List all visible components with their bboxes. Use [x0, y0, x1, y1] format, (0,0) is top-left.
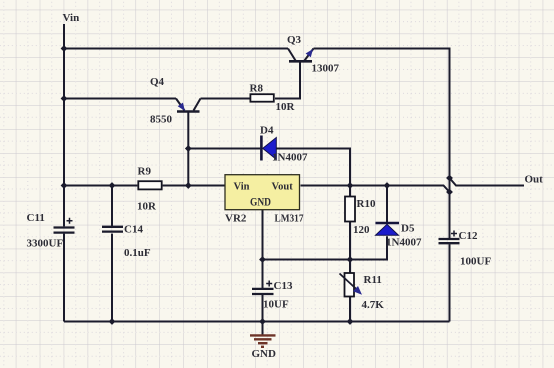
svg-text:Vin: Vin	[63, 12, 80, 24]
svg-text:1N4007: 1N4007	[272, 152, 308, 164]
svg-text:LM317: LM317	[275, 213, 304, 225]
svg-text:8550: 8550	[150, 114, 173, 126]
wire R9 to LM317 Vin pin	[163, 185, 225, 187]
svg-text:D5: D5	[401, 223, 415, 235]
svg-text:VR2: VR2	[225, 213, 247, 225]
svg-text:R10: R10	[357, 198, 376, 210]
regulator VR2 LM317	[225, 175, 304, 225]
wire R11 bottom lead	[349, 297, 351, 322]
svg-text:Vout: Vout	[272, 182, 294, 193]
junction at C14 / bottom rail	[109, 318, 116, 325]
ground symbol GND	[250, 322, 276, 361]
wire Q4 base lead down	[187, 112, 189, 186]
svg-text:C12: C12	[459, 230, 478, 242]
svg-text:10R: 10R	[276, 101, 296, 113]
junction upper jog	[446, 175, 453, 182]
resistor R10 120	[345, 197, 376, 237]
svg-text:GND: GND	[252, 348, 277, 360]
junction at D5 top	[384, 182, 391, 189]
wire ADJ row with D5 bottom lead	[263, 236, 388, 259]
svg-text:Vin: Vin	[234, 182, 250, 193]
junction at C13 / bottom rail	[259, 318, 266, 325]
wire Vout rail with jog diagonal	[301, 186, 450, 193]
svg-text:R11: R11	[364, 274, 382, 286]
wire jog to Out	[450, 178, 525, 186]
wire Q4 collector to R8	[201, 98, 250, 100]
junction at D4 corner / R10 top	[347, 182, 354, 189]
capacitor C12 100UF	[439, 230, 492, 268]
svg-text:GND: GND	[250, 197, 271, 209]
wire C13 bottom to rail	[262, 295, 264, 322]
svg-text:C13: C13	[274, 280, 293, 292]
svg-text:R9: R9	[138, 166, 152, 178]
wire top rail right (Q3 emitter to right corner, down)	[314, 49, 450, 179]
wire R10 top lead	[349, 186, 351, 197]
svg-text:13007: 13007	[312, 63, 340, 75]
wire D4 right segment with corner down	[276, 149, 350, 186]
capacitor C11 3300UF	[27, 212, 75, 250]
svg-text:Q4: Q4	[150, 76, 165, 88]
junction at C14 top	[109, 182, 116, 189]
wire right vertical down to C12	[449, 192, 451, 238]
transistor Q3 13007	[287, 34, 340, 75]
wire Vin stem lower to bottom rail corner	[63, 234, 65, 322]
wire right vertical jog segment	[449, 178, 451, 192]
wire R8 to Q3 base corner	[275, 61, 300, 98]
transistor Q4 8550	[150, 76, 201, 126]
svg-text:0.1uF: 0.1uF	[124, 247, 151, 259]
wire C14 bottom lead	[111, 234, 113, 322]
junction lower jog	[446, 189, 453, 196]
svg-text:100UF: 100UF	[460, 256, 491, 268]
junction at R10 bottom / R11 top	[347, 256, 354, 263]
junction at GND pin / ADJ row	[259, 256, 266, 263]
junction at Q4 base / D4	[185, 145, 192, 152]
capacitor C14 0.1uF	[102, 224, 151, 260]
wire top rail left (Vin to Q3 collector)	[64, 48, 288, 50]
svg-text:10UF: 10UF	[263, 299, 289, 311]
wire R10 bottom to R11 top	[349, 222, 351, 273]
svg-text:4.7K: 4.7K	[362, 299, 385, 311]
junction at Vin/row2	[61, 95, 68, 102]
wire mid rail left (Vin to R9)	[64, 185, 137, 187]
wire D5 top lead	[386, 186, 388, 223]
svg-text:Out: Out	[525, 174, 544, 186]
junction at Q4 base / mid rail	[185, 182, 192, 189]
wire LM317 GND pin to C13	[262, 210, 264, 289]
svg-text:Q3: Q3	[287, 34, 302, 46]
wire row2 left (Vin to Q4 emitter)	[64, 98, 176, 100]
svg-text:C14: C14	[124, 224, 143, 236]
svg-text:R8: R8	[250, 83, 264, 95]
resistor R8 10R	[250, 83, 296, 114]
junction at R11 / bottom rail	[347, 318, 354, 325]
svg-text:C11: C11	[27, 212, 45, 224]
svg-text:120: 120	[353, 224, 370, 236]
diode D4 1N4007	[260, 125, 308, 164]
resistor R9 10R	[137, 166, 162, 213]
wire Vin stem upper	[63, 24, 65, 226]
svg-text:10R: 10R	[137, 201, 157, 213]
wire bottom rail	[64, 321, 450, 323]
diode D5 1N4007	[376, 223, 422, 249]
junction at Vin/mid rail	[61, 182, 68, 189]
potentiometer R11 4.7K	[340, 273, 385, 311]
svg-text:D4: D4	[260, 125, 274, 137]
capacitor C13 10UF	[252, 280, 293, 311]
svg-text:3300UF: 3300UF	[27, 238, 64, 250]
junction at Vin/top rail	[61, 45, 68, 52]
wire C12 bottom to rail corner	[449, 244, 451, 321]
svg-text:1N4007: 1N4007	[386, 237, 422, 249]
wire C14 top lead	[111, 186, 113, 227]
wire D4 left segment	[188, 148, 260, 150]
